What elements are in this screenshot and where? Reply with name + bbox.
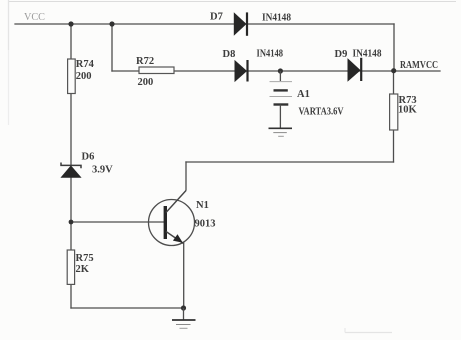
diode D7: [234, 13, 246, 34]
svg-text:10K: 10K: [398, 105, 418, 116]
resistor R72: [139, 67, 174, 74]
resistor R75: [67, 250, 74, 284]
node junction dot emitter/ground: [181, 305, 186, 310]
wire emitter down lead: [183, 243, 185, 308]
battery A1: [270, 71, 293, 128]
scan artifact bottom: [345, 332, 392, 334]
wire second rail riser: [111, 24, 113, 71]
wire feedback horizontal: [186, 161, 394, 163]
svg-text:N1: N1: [196, 200, 209, 211]
scan artifact left edge: [8, 0, 10, 50]
diode D8: [235, 61, 246, 81]
ground below battery: [269, 128, 293, 136]
wire second rail: [112, 70, 440, 72]
wire collector riser: [185, 162, 187, 190]
wire top rail right corner down: [393, 24, 395, 71]
scan artifact top edge: [9, 1, 456, 3]
wire VCC top rail: [15, 23, 394, 25]
svg-text:D8: D8: [223, 49, 236, 60]
node junction dot VCC/riser: [109, 21, 114, 26]
svg-text:D9: D9: [335, 49, 348, 60]
svg-text:IN4148: IN4148: [353, 49, 382, 60]
node junction dot base: [69, 220, 74, 225]
node junction dot battery tap: [278, 68, 283, 73]
wire R73 top lead: [393, 71, 395, 94]
svg-text:9013: 9013: [195, 219, 216, 230]
resistor R74: [68, 59, 76, 94]
svg-text:IN4148: IN4148: [262, 13, 291, 24]
svg-text:R75: R75: [76, 253, 94, 264]
svg-text:A1: A1: [297, 89, 310, 100]
zener diode D6: [61, 163, 81, 178]
svg-text:D7: D7: [210, 12, 223, 23]
svg-text:R74: R74: [76, 59, 95, 70]
node junction dot RAMVCC: [391, 68, 396, 73]
diode D9: [348, 59, 360, 80]
ground main (emitter): [172, 308, 196, 328]
resistor R73: [390, 94, 398, 130]
svg-text:R72: R72: [136, 56, 154, 67]
svg-text:VCC: VCC: [24, 12, 45, 23]
svg-text:3.9V: 3.9V: [92, 165, 113, 176]
wire bottom emitter-ground rail: [71, 307, 184, 309]
svg-text:200: 200: [138, 77, 154, 88]
svg-text:RAMVCC: RAMVCC: [400, 60, 438, 71]
svg-text:VARTA3.6V: VARTA3.6V: [299, 107, 344, 118]
svg-text:IN4148: IN4148: [257, 49, 284, 60]
wire left branch vertical: [70, 24, 72, 59]
svg-text:2K: 2K: [76, 264, 90, 275]
svg-text:200: 200: [76, 71, 92, 82]
node junction dot VCC/R74: [68, 21, 73, 26]
wire R73 bottom lead down: [393, 130, 395, 162]
wire base lead: [71, 221, 164, 223]
svg-text:D6: D6: [82, 152, 95, 163]
transistor N1: [149, 191, 195, 246]
